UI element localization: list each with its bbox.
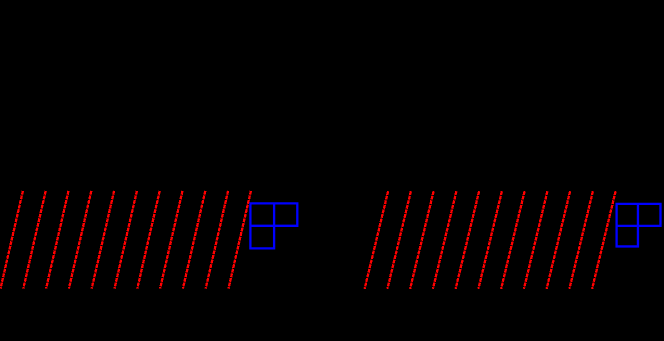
wire hatch-right line 5 [456,191,480,289]
wire hatch-right line 9 [547,191,571,289]
wire hatch-left line 2 [23,191,45,289]
wire hatch-right line 8 [524,191,548,289]
wire hatch-right line 6 [478,191,502,289]
wire hatch-left line 8 [160,191,182,289]
wire hatch-right line 10 [569,191,593,289]
wire hatch-right line 1 [365,191,389,289]
node left L-tromino [250,203,297,248]
wire hatch-left line 4 [69,191,91,289]
wire hatch-left line 11 [229,191,251,289]
node right L-tromino [617,204,661,247]
wire hatch-left line 9 [183,191,205,289]
wire hatch-right line 4 [433,191,457,289]
wire hatch-left line 6 [115,191,137,289]
wire hatch-right line 7 [501,191,524,289]
wire hatch-left line 10 [206,191,228,289]
wire hatch-right line 2 [387,191,411,289]
wire hatch-right line 3 [410,191,434,289]
wire hatch-left line 5 [92,191,114,289]
wire hatch-left line 1 [1,191,23,289]
wire hatch-right line 11 [592,191,616,289]
wire hatch-left line 3 [46,191,68,289]
wire hatch-left line 7 [137,191,159,289]
